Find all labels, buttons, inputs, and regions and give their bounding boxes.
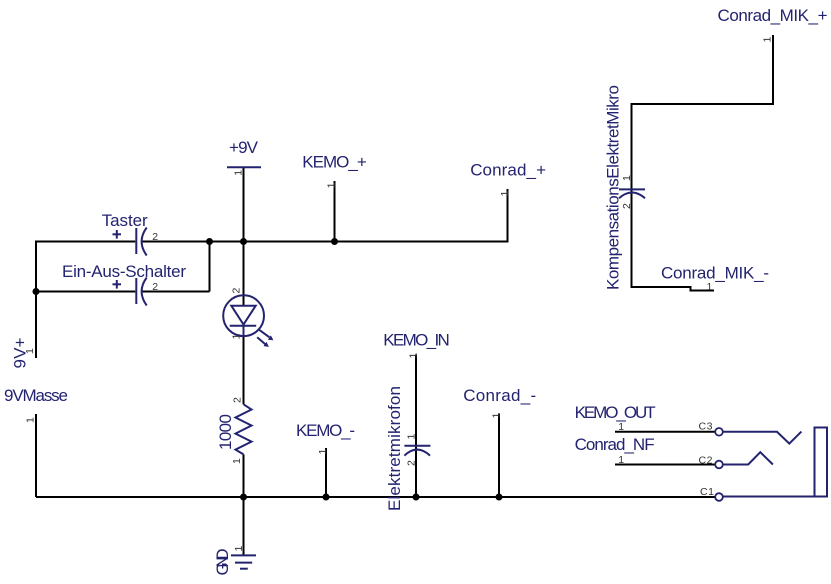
svg-text:Ein-Aus-Schalter: Ein-Aus-Schalter xyxy=(62,262,186,281)
svg-text:1: 1 xyxy=(25,417,37,423)
wire: KEMO_IN through Elektretmikrofon cap to bottom bus xyxy=(415,355,417,498)
svg-text:2: 2 xyxy=(152,281,158,293)
jack ring contact (C2 spring) xyxy=(723,452,773,464)
svg-text:1: 1 xyxy=(326,182,338,188)
svg-text:1000: 1000 xyxy=(216,414,235,450)
svg-text:2: 2 xyxy=(232,397,244,403)
svg-text:1: 1 xyxy=(406,434,418,440)
wire: top +9V bus left segment xyxy=(36,241,135,243)
svg-text:Taster: Taster xyxy=(102,211,148,230)
svg-text:Conrad_-: Conrad_- xyxy=(463,386,536,405)
svg-text:Conrad_+: Conrad_+ xyxy=(470,161,546,180)
wire: stub to 9V+ supply pin xyxy=(35,292,37,359)
LED D1 xyxy=(223,295,273,347)
wire: top +9V bus right segment xyxy=(142,241,508,243)
svg-text:C1: C1 xyxy=(700,486,714,498)
svg-text:C3: C3 xyxy=(699,421,713,433)
junction dot: KEMO_+ / bus xyxy=(331,238,338,245)
wire: Ein-Aus-Schalter line left segment xyxy=(36,291,135,293)
junction dot: resistor-GND / bottom bus xyxy=(240,494,247,501)
wire: KEMO_OUT horizontal to C3 xyxy=(615,431,715,433)
jack tip contact (C3 spring) xyxy=(723,432,802,444)
supply symbol +9V bar xyxy=(227,166,261,168)
wire: 9VMasse vertical xyxy=(35,414,37,497)
svg-text:9VMasse: 9VMasse xyxy=(4,386,68,405)
pin circle C1 xyxy=(715,493,723,501)
wire: KEMO_+ stub down to bus xyxy=(334,181,336,242)
svg-text:Conrad_MIK_-: Conrad_MIK_- xyxy=(661,263,769,282)
switch S2 Ein-Aus-Schalter (polarized-cap style contact symbol) xyxy=(113,278,147,306)
svg-text:2: 2 xyxy=(152,231,158,243)
wire: resistor to bottom bus xyxy=(243,454,245,497)
wire: Conrad_MIK horizontal over xyxy=(632,103,775,105)
wire: Conrad_MIK_- horizontal with jog xyxy=(631,287,715,291)
jack sleeve line C1 xyxy=(723,496,815,498)
connector X1 jack body xyxy=(815,428,828,497)
resistor R1 zigzag xyxy=(236,404,252,454)
svg-text:2: 2 xyxy=(621,203,633,209)
svg-text:2: 2 xyxy=(231,288,243,294)
svg-text:1: 1 xyxy=(408,353,420,359)
svg-text:1: 1 xyxy=(491,413,503,419)
svg-text:2: 2 xyxy=(406,460,418,466)
wire: Conrad_- vertical xyxy=(498,414,500,498)
svg-text:KEMO_+: KEMO_+ xyxy=(302,153,367,172)
wire: Conrad_MIK_+ vertical xyxy=(772,35,774,104)
wire: LED cathode to resistor xyxy=(243,336,245,405)
svg-text:1: 1 xyxy=(762,37,774,43)
junction dot: KEMO_- / bottom bus xyxy=(323,494,330,501)
ground symbol GND xyxy=(231,555,256,568)
svg-text:KEMO_-: KEMO_- xyxy=(296,421,355,440)
junction dot: 9V+ / Ein-Aus line xyxy=(33,288,40,295)
junction dot: +9V / bus xyxy=(240,238,247,245)
svg-text:1: 1 xyxy=(618,454,624,466)
svg-text:1: 1 xyxy=(618,421,624,433)
svg-text:1: 1 xyxy=(707,281,713,293)
svg-text:Conrad_NF: Conrad_NF xyxy=(575,435,655,454)
switch S1 Taster (polarized-cap style contact symbol) xyxy=(113,228,147,256)
junction dot: Ein-Aus / bus xyxy=(206,238,213,245)
svg-text:1: 1 xyxy=(621,175,633,181)
junction dot: Elektretmikrofon / bottom bus xyxy=(413,494,420,501)
svg-text:1: 1 xyxy=(231,458,243,464)
svg-text:KEMO_OUT: KEMO_OUT xyxy=(575,403,656,422)
capacitor C (KompensationsElektretMikro) xyxy=(619,189,645,198)
svg-text:Elektretmikrofon: Elektretmikrofon xyxy=(385,386,404,511)
wire: Conrad_+ vertical down to bus xyxy=(507,189,509,243)
svg-text:1: 1 xyxy=(317,449,329,455)
svg-text:Conrad_MIK_+: Conrad_MIK_+ xyxy=(718,6,828,25)
svg-text:1: 1 xyxy=(231,334,243,340)
wire: left vertical from Taster line down to Ein-Aus line xyxy=(35,241,37,292)
svg-text:KompensationsElektretMikro: KompensationsElektretMikro xyxy=(604,85,623,290)
svg-text:1: 1 xyxy=(233,546,245,552)
wire: Conrad_MIK down through cap xyxy=(631,103,633,287)
svg-text:KEMO_IN: KEMO_IN xyxy=(383,331,450,350)
svg-text:GND: GND xyxy=(213,549,232,576)
wire: Ein-Aus-Schalter line right segment xyxy=(142,291,210,293)
svg-text:1: 1 xyxy=(24,348,36,354)
svg-text:1: 1 xyxy=(233,170,245,176)
wire: bus to LED anode xyxy=(243,242,245,306)
wire: Ein-Aus-Schalter up to bus xyxy=(209,241,211,292)
capacitor C (Elektretmikrofon) xyxy=(404,446,430,456)
pin circle C3 xyxy=(715,428,723,436)
wire: bottom GND bus xyxy=(36,496,715,498)
svg-text:C2: C2 xyxy=(699,454,713,466)
svg-text:1: 1 xyxy=(499,191,511,197)
svg-text:+9V: +9V xyxy=(229,138,259,157)
pin circle C2 xyxy=(715,461,723,469)
wire: Conrad_NF horizontal to C2 xyxy=(615,464,715,466)
junction dot: Conrad_- / bottom bus xyxy=(496,494,503,501)
wire: GND stub xyxy=(243,497,245,555)
wire: KEMO_- vertical xyxy=(325,448,327,497)
wire: +9V symbol stub down to bus xyxy=(243,168,245,242)
